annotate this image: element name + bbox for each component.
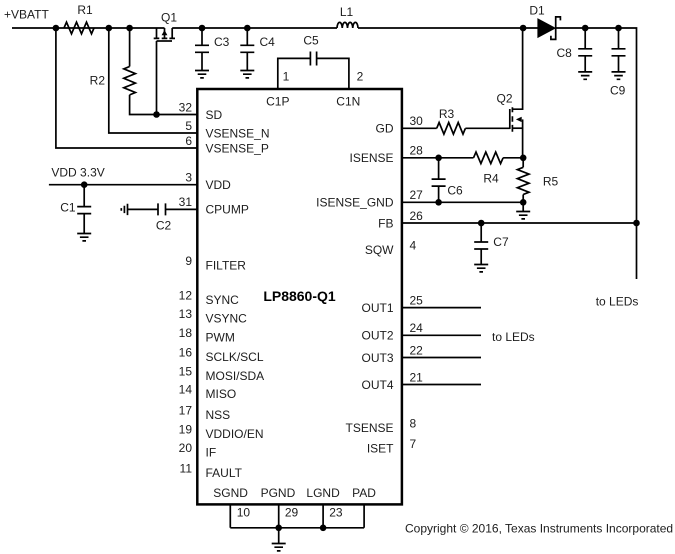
svg-text:SQW: SQW bbox=[365, 243, 394, 257]
diode D1 bbox=[538, 17, 561, 40]
svg-text:to LEDs: to LEDs bbox=[596, 294, 639, 308]
resistor R2 bbox=[124, 67, 136, 95]
label C5 bbox=[303, 33, 319, 47]
wire FB bbox=[402, 222, 637, 224]
pin 7 ISET label bbox=[367, 441, 394, 455]
svg-text:C1P: C1P bbox=[266, 94, 289, 108]
label R4 bbox=[483, 171, 499, 185]
capacitor C7 bbox=[474, 223, 488, 265]
pin 3 VDD label bbox=[206, 178, 232, 192]
label C6 bbox=[447, 183, 463, 197]
pin 2 bbox=[357, 69, 364, 83]
pin number 25 bbox=[410, 293, 424, 307]
svg-text:TSENSE: TSENSE bbox=[345, 421, 393, 435]
ground C8 bbox=[578, 72, 592, 79]
svg-text:10: 10 bbox=[237, 506, 251, 520]
node ISENSE_GND C6 bbox=[435, 199, 442, 206]
pin LGND bbox=[306, 486, 340, 500]
svg-text:D1: D1 bbox=[529, 3, 545, 17]
svg-text:IF: IF bbox=[206, 446, 217, 460]
ground C3 bbox=[195, 71, 209, 78]
svg-text:OUT2: OUT2 bbox=[361, 329, 393, 343]
svg-text:ISET: ISET bbox=[367, 441, 394, 455]
pin number 20 bbox=[179, 441, 193, 455]
pin number 18 bbox=[179, 326, 193, 340]
label Q1 bbox=[161, 10, 177, 24]
wire R2 top bbox=[129, 28, 131, 67]
pin number 21 bbox=[410, 370, 424, 384]
svg-text:21: 21 bbox=[410, 370, 424, 384]
svg-text:11: 11 bbox=[180, 461, 193, 475]
pin 25 OUT1 label bbox=[361, 301, 393, 315]
pin 26 FB label bbox=[378, 216, 393, 230]
svg-text:LGND: LGND bbox=[306, 486, 340, 500]
wire OUT3 bbox=[402, 357, 481, 359]
label C9 bbox=[610, 83, 626, 97]
pin 17 NSS label bbox=[206, 408, 231, 422]
capacitor C8 bbox=[578, 28, 592, 72]
pin 28 ISENSE label bbox=[349, 151, 393, 165]
pin 16 SCLK/SCL label bbox=[206, 350, 264, 364]
pin 30 GD label bbox=[376, 122, 394, 136]
label C7 bbox=[493, 235, 509, 249]
node C3 tap bbox=[199, 25, 206, 32]
pin 6 VSENSE_P label bbox=[206, 141, 269, 155]
node FB right bbox=[633, 220, 640, 227]
pin number 19 bbox=[179, 422, 193, 436]
node VDD C1 tap bbox=[81, 181, 88, 188]
pin number 12 bbox=[179, 289, 193, 303]
svg-text:19: 19 bbox=[179, 422, 193, 436]
svg-text:PAD: PAD bbox=[352, 486, 376, 500]
label VDD 3.3V bbox=[51, 165, 104, 179]
pin number 4 bbox=[410, 238, 417, 252]
label C8 bbox=[557, 46, 573, 60]
svg-text:CPUMP: CPUMP bbox=[206, 203, 249, 217]
label +VBATT bbox=[4, 8, 49, 22]
node Q2 source node bbox=[520, 155, 527, 162]
capacitor C6 bbox=[432, 158, 446, 203]
pin 8 TSENSE label bbox=[345, 421, 393, 435]
label R5 bbox=[543, 174, 559, 188]
resistor R5 bbox=[517, 158, 529, 203]
svg-text:14: 14 bbox=[179, 382, 193, 396]
svg-text:C2: C2 bbox=[156, 218, 172, 232]
svg-text:SYNC: SYNC bbox=[206, 293, 240, 307]
pin 19 VDDIO/EN label bbox=[206, 427, 264, 441]
capacitor C5 bbox=[278, 52, 349, 89]
pin 11 FAULT label bbox=[206, 466, 243, 480]
svg-text:C4: C4 bbox=[260, 35, 276, 49]
svg-text:6: 6 bbox=[185, 134, 192, 148]
svg-text:Q1: Q1 bbox=[161, 10, 177, 24]
label C4 bbox=[260, 35, 276, 49]
svg-text:C1N: C1N bbox=[336, 94, 360, 108]
node junction A bbox=[106, 25, 113, 32]
node C4 tap bbox=[244, 25, 251, 32]
pin number 23 bbox=[329, 506, 343, 520]
pin 4 SQW label bbox=[365, 243, 394, 257]
inductor L1 bbox=[337, 22, 358, 28]
pin 24 OUT2 label bbox=[361, 329, 393, 343]
node LGND junction bbox=[320, 525, 327, 532]
svg-text:ISENSE: ISENSE bbox=[349, 151, 393, 165]
svg-text:29: 29 bbox=[285, 506, 299, 520]
label R3 bbox=[439, 107, 455, 121]
wire R2 to SD bbox=[130, 95, 197, 115]
transistor Q2 bbox=[510, 28, 523, 158]
ground PGND bbox=[272, 528, 286, 551]
capacitor C9 bbox=[612, 28, 626, 72]
wire OUT1 bbox=[402, 307, 481, 309]
svg-text:25: 25 bbox=[410, 293, 424, 307]
svg-text:VDD 3.3V: VDD 3.3V bbox=[51, 165, 104, 179]
pin 22 OUT3 label bbox=[361, 351, 393, 365]
pin number 26 bbox=[410, 209, 424, 223]
pin 9 FILTER label bbox=[206, 259, 247, 273]
svg-text:26: 26 bbox=[410, 209, 424, 223]
node PGND junction bbox=[275, 525, 282, 532]
svg-text:SCLK/SCL: SCLK/SCL bbox=[206, 350, 264, 364]
node C8 tap bbox=[582, 25, 589, 32]
pin 13 VSYNC label bbox=[206, 312, 248, 326]
transistor Q1 bbox=[154, 28, 175, 41]
svg-text:7: 7 bbox=[410, 437, 417, 451]
wire VSENSE_N bbox=[109, 28, 197, 133]
ground C9 bbox=[612, 72, 626, 79]
svg-text:18: 18 bbox=[179, 326, 193, 340]
svg-text:R5: R5 bbox=[543, 174, 559, 188]
wire ground bus bbox=[230, 504, 364, 528]
node VBATT junction bbox=[53, 25, 60, 32]
pin number 15 bbox=[179, 364, 193, 378]
wire ISENSE bbox=[402, 157, 474, 159]
svg-text:2: 2 bbox=[357, 69, 364, 83]
node junction B bbox=[126, 25, 133, 32]
capacitor C1 bbox=[77, 185, 91, 234]
svg-text:3: 3 bbox=[185, 171, 192, 185]
svg-text:31: 31 bbox=[179, 195, 193, 209]
wire VDD bbox=[49, 184, 197, 186]
svg-text:VDDIO/EN: VDDIO/EN bbox=[206, 427, 264, 441]
pin 15 MOSI/SDA label bbox=[206, 369, 265, 383]
pin number 11 bbox=[180, 461, 193, 475]
svg-text:FAULT: FAULT bbox=[206, 466, 243, 480]
svg-text:to LEDs: to LEDs bbox=[492, 330, 535, 344]
svg-text:OUT3: OUT3 bbox=[361, 351, 393, 365]
svg-text:SD: SD bbox=[206, 108, 223, 122]
pin number 9 bbox=[185, 254, 192, 268]
ground R5 bbox=[516, 202, 530, 219]
pin number 24 bbox=[410, 321, 424, 335]
svg-text:VSYNC: VSYNC bbox=[206, 312, 248, 326]
pin 27 ISENSE_GND label bbox=[316, 196, 394, 210]
svg-text:OUT1: OUT1 bbox=[361, 301, 393, 315]
pin 20 IF label bbox=[206, 446, 217, 460]
svg-text:13: 13 bbox=[179, 307, 193, 321]
label to LEDs middle bbox=[492, 330, 535, 344]
pin PAD bbox=[352, 486, 376, 500]
wire OUT4 bbox=[402, 384, 481, 386]
pin number 16 bbox=[179, 346, 193, 360]
pin number 30 bbox=[410, 114, 424, 128]
resistor R3 bbox=[437, 123, 466, 135]
pin number 31 bbox=[179, 195, 193, 209]
wire GD bbox=[402, 127, 437, 129]
svg-text:R2: R2 bbox=[90, 73, 106, 87]
pin number 8 bbox=[410, 416, 417, 430]
svg-text:C8: C8 bbox=[557, 46, 573, 60]
svg-text:C9: C9 bbox=[610, 83, 626, 97]
node SD junction bbox=[153, 111, 160, 118]
ground C1 bbox=[77, 234, 91, 241]
svg-text:R3: R3 bbox=[439, 107, 455, 121]
label C2 bbox=[156, 218, 172, 232]
label R2 bbox=[90, 73, 106, 87]
node D1 anode bbox=[520, 25, 527, 32]
capacitor C4 bbox=[240, 28, 254, 71]
ground C4 bbox=[240, 71, 254, 78]
wire ISENSE_GND bbox=[402, 201, 523, 203]
svg-text:SGND: SGND bbox=[213, 486, 248, 500]
label C1 bbox=[60, 201, 76, 215]
svg-text:28: 28 bbox=[410, 144, 424, 158]
label copyright bbox=[405, 521, 673, 535]
wire diode out bbox=[556, 28, 637, 279]
svg-text:5: 5 bbox=[185, 119, 192, 133]
node FB C7 tap bbox=[478, 220, 485, 227]
svg-text:VDD: VDD bbox=[206, 178, 232, 192]
label Q2 bbox=[496, 91, 512, 105]
pin PGND bbox=[261, 486, 296, 500]
ground C2 bbox=[121, 204, 127, 215]
svg-text:24: 24 bbox=[410, 321, 424, 335]
svg-text:1: 1 bbox=[283, 69, 290, 83]
svg-text:LP8860-Q1: LP8860-Q1 bbox=[263, 288, 336, 304]
pin number 32 bbox=[179, 100, 193, 114]
svg-text:17: 17 bbox=[179, 404, 193, 418]
pin 5 VSENSE_N label bbox=[206, 126, 270, 140]
svg-text:22: 22 bbox=[410, 343, 424, 357]
label to LEDs right bbox=[596, 294, 639, 308]
svg-text:Copyright © 2016, Texas Instru: Copyright © 2016, Texas Instruments Inco… bbox=[405, 521, 673, 535]
svg-text:ISENSE_GND: ISENSE_GND bbox=[316, 196, 394, 210]
label L1 bbox=[340, 5, 354, 19]
svg-text:27: 27 bbox=[410, 188, 424, 202]
svg-text:4: 4 bbox=[410, 238, 417, 252]
wire VSENSE_P bbox=[56, 28, 197, 148]
svg-text:C7: C7 bbox=[493, 235, 509, 249]
op-amp U1 LP8860-Q1 box bbox=[197, 89, 402, 504]
wire +VBATT rail bbox=[12, 27, 337, 29]
wire Q1 gate bbox=[156, 41, 158, 115]
label C3 bbox=[214, 35, 230, 49]
svg-text:9: 9 bbox=[185, 254, 192, 268]
pin 21 OUT4 label bbox=[361, 378, 393, 392]
svg-text:C6: C6 bbox=[447, 183, 463, 197]
svg-text:OUT4: OUT4 bbox=[361, 378, 393, 392]
pin number 13 bbox=[179, 307, 193, 321]
svg-text:20: 20 bbox=[179, 441, 193, 455]
pin number 6 bbox=[185, 134, 192, 148]
svg-text:32: 32 bbox=[179, 100, 193, 114]
pin 32 SD label bbox=[206, 108, 223, 122]
svg-text:FB: FB bbox=[378, 216, 393, 230]
svg-text:PGND: PGND bbox=[261, 486, 296, 500]
label R1 bbox=[77, 3, 93, 17]
svg-text:MISO: MISO bbox=[206, 387, 237, 401]
wire rail to diode bbox=[358, 27, 538, 29]
label LP8860-Q1 bbox=[263, 288, 336, 304]
pin number 29 bbox=[285, 506, 299, 520]
svg-text:16: 16 bbox=[179, 346, 193, 360]
pin C1N bbox=[336, 94, 360, 108]
svg-text:GD: GD bbox=[376, 122, 394, 136]
capacitor C2 bbox=[128, 203, 197, 215]
pin number 28 bbox=[410, 144, 424, 158]
pin 14 MISO label bbox=[206, 387, 237, 401]
pin C1P bbox=[266, 94, 289, 108]
pin 18 PWM label bbox=[206, 331, 235, 345]
pin number 7 bbox=[410, 437, 417, 451]
node C9 tap bbox=[615, 25, 622, 32]
svg-text:C5: C5 bbox=[303, 33, 319, 47]
svg-text:C3: C3 bbox=[214, 35, 230, 49]
wire R3 to gate bbox=[465, 127, 509, 129]
pin 12 SYNC label bbox=[206, 293, 240, 307]
pin number 10 bbox=[237, 506, 251, 520]
resistor R1 bbox=[64, 22, 94, 34]
svg-text:VSENSE_N: VSENSE_N bbox=[206, 126, 270, 140]
wire R4 to R5 bbox=[503, 157, 523, 159]
svg-text:15: 15 bbox=[179, 364, 193, 378]
svg-text:12: 12 bbox=[179, 289, 193, 303]
svg-text:8: 8 bbox=[410, 416, 417, 430]
ground C7 bbox=[474, 265, 488, 272]
pin 1 bbox=[283, 69, 290, 83]
svg-text:FILTER: FILTER bbox=[206, 259, 247, 273]
svg-text:MOSI/SDA: MOSI/SDA bbox=[206, 369, 265, 383]
pin number 5 bbox=[185, 119, 192, 133]
svg-text:30: 30 bbox=[410, 114, 424, 128]
svg-text:VSENSE_P: VSENSE_P bbox=[206, 141, 269, 155]
svg-text:C1: C1 bbox=[60, 201, 76, 215]
svg-text:R1: R1 bbox=[77, 3, 93, 17]
capacitor C3 bbox=[195, 28, 209, 71]
pin number 14 bbox=[179, 382, 193, 396]
pin number 22 bbox=[410, 343, 424, 357]
pin number 27 bbox=[410, 188, 424, 202]
svg-text:Q2: Q2 bbox=[496, 91, 512, 105]
pin 31 CPUMP label bbox=[206, 203, 249, 217]
pin number 3 bbox=[185, 171, 192, 185]
node ISENSE C6 tap bbox=[435, 155, 442, 162]
svg-text:PWM: PWM bbox=[206, 331, 235, 345]
node R5 bottom bbox=[520, 199, 527, 206]
svg-text:+VBATT: +VBATT bbox=[4, 8, 49, 22]
svg-text:R4: R4 bbox=[483, 171, 499, 185]
pin number 17 bbox=[179, 404, 193, 418]
svg-text:NSS: NSS bbox=[206, 408, 231, 422]
label D1 bbox=[529, 3, 545, 17]
resistor R4 bbox=[474, 152, 504, 164]
svg-text:L1: L1 bbox=[340, 5, 354, 19]
svg-text:23: 23 bbox=[329, 506, 343, 520]
wire OUT2 bbox=[402, 334, 481, 336]
pin SGND bbox=[213, 486, 248, 500]
